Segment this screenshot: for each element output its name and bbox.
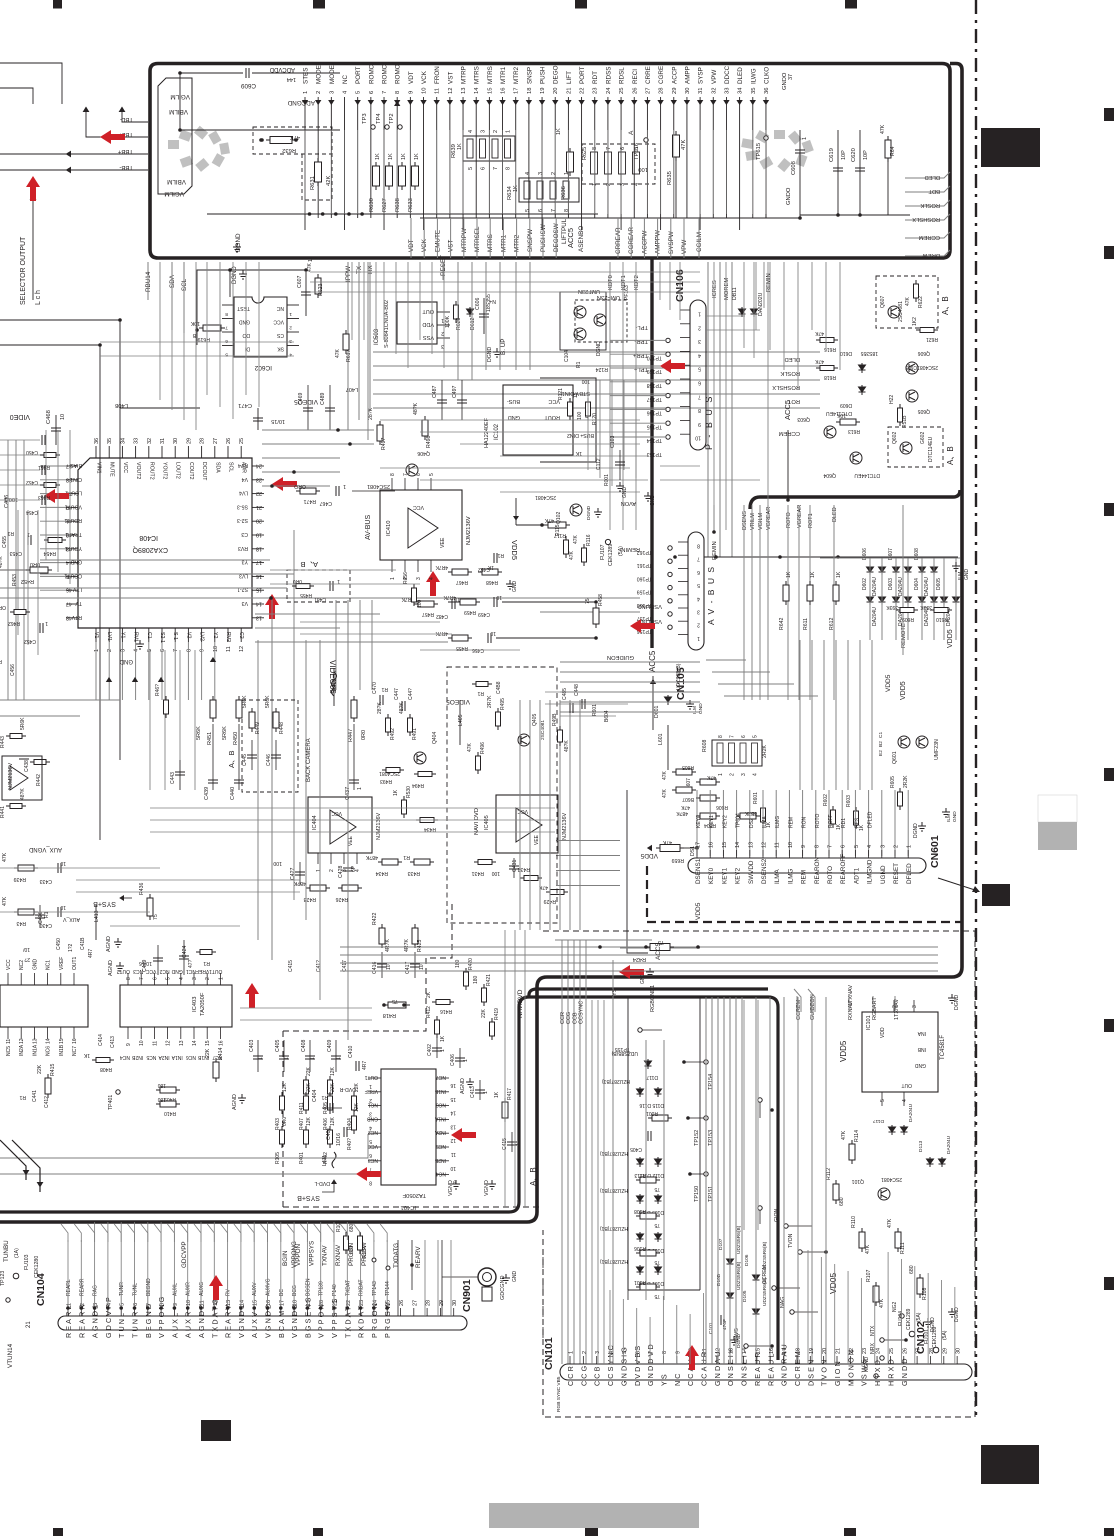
- svg-text:TPL+: TPL+: [633, 366, 648, 372]
- svg-text:3: 3: [741, 773, 747, 776]
- svg-text:OUT: OUT: [901, 1082, 912, 1088]
- svg-text:C448: C448: [574, 684, 580, 696]
- wires CN106 surroundings verticals: [659, 262, 661, 300]
- dashed region IC401: [283, 900, 540, 1207]
- registration mark bottom 4: [844, 1528, 856, 1536]
- svg-text:47K: 47K: [569, 550, 575, 560]
- svg-text:NC4: NC4: [436, 1171, 446, 1177]
- svg-text:VDD5: VDD5: [947, 629, 954, 648]
- capacitor C428 6P: [347, 860, 349, 880]
- svg-text:5: 5: [525, 209, 531, 212]
- registration mark top 3: [575, 0, 587, 9]
- svg-text:GUIDEON: GUIDEON: [607, 654, 634, 660]
- svg-text:S2-1: S2-1: [159, 632, 165, 643]
- svg-text:VIN1: VIN1: [96, 462, 102, 474]
- svg-text:CN601: CN601: [929, 835, 941, 868]
- svg-text:R618: R618: [824, 374, 836, 380]
- svg-text:2R7K: 2R7K: [487, 695, 493, 708]
- svg-text:48?K: 48?K: [293, 880, 306, 886]
- svg-text:YS: YS: [659, 1372, 668, 1386]
- wire bundle AVBUS verticals: [705, 997, 707, 1364]
- svg-text:8: 8: [718, 735, 724, 738]
- red arrow thick: [619, 965, 644, 979]
- svg-text:RESET: RESET: [893, 863, 900, 884]
- svg-text:47K: 47K: [544, 517, 554, 523]
- svg-text:BUS+ DIN2: BUS+ DIN2: [567, 432, 594, 438]
- svg-text:48?K: 48?K: [564, 740, 570, 752]
- svg-text:DGND: DGND: [954, 994, 960, 1010]
- svg-text:KDT1: KDT1: [621, 275, 627, 290]
- svg-text:ASENBO: ASENBO: [578, 226, 585, 252]
- wires array verticals: [869, 558, 871, 640]
- svg-text:NC7: NC7: [436, 1074, 446, 1080]
- capacitor C606 18355: [483, 298, 485, 334]
- svg-text:30: 30: [452, 1300, 458, 1306]
- svg-text:C427: C427: [290, 867, 296, 880]
- label box VGILM VBILM: [158, 78, 192, 194]
- svg-text:25: 25: [619, 88, 625, 94]
- svg-text:REARR: REARR: [79, 1278, 85, 1296]
- svg-text:4R7K: 4R7K: [435, 564, 448, 570]
- svg-text:R462: R462: [8, 620, 20, 626]
- svg-text:R497: R497: [381, 437, 387, 450]
- svg-text:5: 5: [468, 167, 474, 170]
- svg-text:21: 21: [26, 1321, 32, 1328]
- svg-text:C471: C471: [238, 402, 252, 408]
- svg-text:DTC144EU: DTC144EU: [854, 472, 880, 478]
- svg-text:TA2050F: TA2050F: [200, 992, 206, 1016]
- svg-text:CCB: CCB: [572, 1012, 578, 1024]
- resistor R001 C405b: [648, 1115, 672, 1121]
- svg-text:0R0: 0R0: [361, 730, 367, 740]
- red arrow audio: [245, 983, 259, 1008]
- svg-text:28: 28: [659, 88, 665, 94]
- svg-text:R426: R426: [335, 896, 348, 902]
- svg-text:IN1B: IN1B: [59, 1044, 65, 1056]
- svg-text:47K: 47K: [865, 1244, 871, 1254]
- svg-text:1: 1: [94, 649, 100, 652]
- svg-text:29: 29: [186, 438, 192, 444]
- svg-text:2: 2: [289, 325, 292, 331]
- svg-text:R103: R103: [336, 1220, 342, 1232]
- svg-text:GND: GND: [239, 319, 251, 325]
- svg-text:VCC: VCC: [122, 462, 128, 473]
- capacitor C101 470P: [718, 1315, 721, 1325]
- svg-text:TBL-: TBL-: [120, 116, 133, 122]
- svg-text:7: 7: [698, 393, 701, 399]
- svg-text:REMIN: REMIN: [766, 273, 772, 292]
- svg-text:25: 25: [889, 1348, 895, 1354]
- svg-text:47K: 47K: [880, 124, 886, 134]
- svg-text:DA204U: DA204U: [908, 1103, 914, 1122]
- svg-text:R453: R453: [12, 574, 18, 586]
- svg-text:3: 3: [698, 338, 701, 344]
- svg-text:TP165: TP165: [647, 423, 662, 429]
- svg-text:5R6K: 5R6K: [196, 726, 202, 740]
- svg-text:7: 7: [493, 167, 499, 170]
- svg-text:D612: D612: [470, 317, 476, 330]
- svg-text:NC7: NC7: [72, 1046, 78, 1056]
- svg-text:TPR-: TPR-: [634, 338, 648, 344]
- svg-text:8: 8: [395, 91, 401, 94]
- svg-text:BC: BC: [279, 1289, 285, 1296]
- svg-text:6: 6: [697, 569, 700, 575]
- svg-text:(5A): (5A): [916, 1312, 922, 1322]
- svg-text:NJM2136V: NJM2136V: [562, 812, 568, 840]
- capacitor C608: [799, 130, 801, 218]
- svg-text:20: 20: [256, 518, 262, 524]
- svg-text:RXNAV: RXNAV: [335, 1244, 342, 1266]
- svg-text:P140: P140: [332, 1284, 338, 1296]
- svg-text:R612: R612: [829, 617, 835, 630]
- svg-text:GND: GND: [622, 487, 628, 499]
- svg-text:D115 D116: D115 D116: [639, 1102, 664, 1108]
- svg-text:TEST: TEST: [237, 305, 250, 311]
- svg-text:VGILM: VGILM: [164, 190, 184, 197]
- svg-text:9: 9: [675, 1351, 681, 1354]
- svg-text:GDCGND: GDCGND: [500, 1276, 506, 1300]
- resistor cluster R401-R405 12K 22K: [280, 1092, 285, 1114]
- svg-text:AGND: AGND: [232, 1094, 238, 1110]
- svg-text:IC602: IC602: [254, 364, 272, 371]
- wires cn901 bracket: [442, 1276, 478, 1278]
- svg-text:47K: 47K: [680, 804, 690, 810]
- svg-text:C428: C428: [338, 865, 344, 878]
- svg-text:R605: R605: [890, 776, 896, 788]
- resistor R621 1K2: [916, 328, 938, 333]
- svg-text:R625: R625: [582, 147, 588, 160]
- svg-text:47K: 47K: [681, 140, 687, 150]
- svg-text:TP163: TP163: [647, 451, 662, 457]
- svg-text:3: 3: [441, 343, 444, 349]
- svg-text:VGREAR: VGREAR: [766, 507, 772, 530]
- svg-text:13: 13: [748, 842, 754, 848]
- svg-text:R633: R633: [408, 198, 414, 212]
- svg-text:18: 18: [527, 88, 533, 94]
- svg-text:8: 8: [662, 1351, 668, 1354]
- wires middle right extra: [705, 315, 745, 317]
- wire band above corner: [340, 946, 938, 948]
- svg-text:KEY2: KEY2: [735, 867, 742, 884]
- svg-text:R632: R632: [282, 147, 296, 153]
- svg-text:C452: C452: [26, 479, 38, 485]
- svg-text:TP615: TP615: [756, 143, 762, 160]
- wires upper mid horizontals: [262, 429, 374, 431]
- svg-text:R49B: R49B: [552, 713, 558, 726]
- diode DB11 DAN202U: [739, 307, 746, 317]
- svg-text:R449: R449: [255, 722, 261, 734]
- svg-text:N+: N+: [489, 298, 496, 304]
- svg-text:(1A): (1A): [14, 1248, 20, 1258]
- resistor R107 47K R108 680: [873, 1282, 879, 1306]
- label VGND: [452, 1180, 460, 1189]
- svg-text:(5A): (5A): [618, 546, 624, 556]
- svg-text:IN1A: IN1A: [434, 1115, 446, 1121]
- svg-text:R627: R627: [382, 198, 388, 212]
- svg-text:DSENS2: DSENS2: [761, 858, 768, 884]
- svg-text:R415: R415: [50, 1063, 56, 1076]
- video resistors R491-R494: [386, 714, 391, 736]
- capacitor C609: [180, 72, 243, 74]
- CN101 risers left pins: [609, 1290, 611, 1364]
- svg-text:10: 10: [60, 414, 66, 420]
- svg-text:ADT1: ADT1: [853, 867, 860, 884]
- svg-text:R001: R001: [646, 1110, 658, 1116]
- dashed box mid A B: [287, 570, 350, 602]
- svg-text:A、B: A、B: [941, 296, 950, 315]
- svg-text:IN1A: IN1A: [171, 1054, 183, 1060]
- connector CN101: [560, 1364, 972, 1380]
- transistor Q601 UMF23N: [898, 736, 910, 748]
- svg-text:19: 19: [809, 1348, 815, 1354]
- svg-text:KEY1: KEY1: [709, 815, 715, 828]
- svg-text:DVDVBS: DVDVBS: [633, 1344, 642, 1386]
- resistor R613 10K R822 22K: [836, 419, 860, 425]
- svg-text:OUT1: OUT1: [209, 968, 223, 974]
- svg-text:R434: R434: [375, 870, 388, 876]
- svg-text:R107: R107: [866, 1269, 872, 1282]
- svg-text:TC4581F: TC4581F: [940, 1035, 946, 1060]
- svg-text:AUXV: AUXV: [250, 1310, 259, 1338]
- svg-text:R601: R601: [592, 704, 598, 716]
- svg-text:C468: C468: [46, 410, 52, 424]
- svg-text:22: 22: [256, 490, 262, 496]
- svg-text:12K: 12K: [330, 1066, 336, 1076]
- svg-text:1: 1: [303, 91, 309, 94]
- test points TP163-TP170: [666, 435, 670, 439]
- resistor R439 47K C433: [14, 865, 38, 871]
- dashed box Q607: [876, 276, 938, 328]
- svg-text:Q406: Q406: [417, 450, 430, 456]
- resistor R447 ORO: [351, 696, 357, 722]
- svg-text:75: 75: [585, 598, 591, 604]
- svg-text:22K: 22K: [205, 1048, 211, 1058]
- svg-text:VDT: VDT: [408, 71, 415, 84]
- svg-text:47K: 47K: [662, 770, 668, 780]
- svg-text:REAROFF: REAROFF: [840, 854, 847, 884]
- svg-text:470P: 470P: [722, 1319, 728, 1330]
- IC403 TA2050F dip left: [0, 985, 88, 1027]
- svg-text:CCREM: CCREM: [793, 1349, 802, 1386]
- svg-text:VCC: VCC: [517, 808, 528, 814]
- svg-text:1: 1: [698, 311, 701, 317]
- test points TP156-TP162: [668, 546, 672, 550]
- svg-text:12K: 12K: [330, 1116, 336, 1126]
- svg-text:75: 75: [153, 914, 159, 920]
- svg-text:R439: R439: [13, 876, 26, 882]
- opamp IC409 lower: [299, 805, 301, 807]
- gray blob cluster right: [741, 138, 753, 149]
- svg-text:11: 11: [435, 88, 441, 94]
- transistor Q102 2SC4081 left: [570, 504, 582, 516]
- svg-text:CS: CS: [276, 332, 284, 338]
- svg-text:TUNR: TUNR: [119, 1282, 125, 1296]
- svg-text:9: 9: [453, 1179, 456, 1185]
- capacitors C487 C497 C488: [441, 380, 443, 420]
- svg-text:1K: 1K: [401, 153, 407, 160]
- black patch lower right: [981, 1445, 1039, 1484]
- svg-text:R408: R408: [100, 1066, 112, 1072]
- svg-text:NC3: NC3: [133, 968, 143, 974]
- caps C403 C405 C408 C409: [257, 1040, 259, 1072]
- svg-text:1K2: 1K2: [912, 317, 918, 326]
- svg-text:MUTE: MUTE: [109, 462, 115, 477]
- red arrow selector: [26, 176, 40, 201]
- svg-text:TBB+: TBB+: [117, 148, 133, 154]
- svg-text:IC410: IC410: [386, 521, 392, 536]
- svg-text:CCB: CCB: [593, 1365, 602, 1386]
- svg-text:GNDAU: GNDAU: [713, 1350, 722, 1386]
- svg-text:VGILM: VGILM: [170, 93, 190, 100]
- svg-text:AUX_VGND: AUX_VGND: [28, 846, 62, 852]
- svg-text:47K: 47K: [467, 742, 473, 752]
- svg-text:10/: 10/: [22, 946, 30, 952]
- svg-text:1?2: 1?2: [68, 943, 74, 952]
- svg-text:10: 10: [139, 1040, 145, 1046]
- chamfer exits CCREM GUIDEON: [794, 989, 801, 1012]
- svg-text:1: 1: [284, 1057, 290, 1060]
- svg-text:TXDAT: TXDAT: [345, 1280, 351, 1296]
- resistors R607 R606 47K: [696, 779, 720, 785]
- svg-text:GNDO: GNDO: [786, 187, 792, 205]
- svg-text:32: 32: [147, 438, 153, 444]
- svg-text:AMPP: AMPP: [684, 66, 691, 84]
- svg-text:48?K: 48?K: [365, 854, 378, 860]
- svg-text:10: 10: [60, 860, 66, 866]
- svg-text:47: 47: [66, 601, 72, 607]
- resistor network R639 1K: [463, 136, 515, 161]
- svg-text:TV: TV: [75, 600, 82, 606]
- svg-text:IC404: IC404: [312, 815, 318, 830]
- svg-text:NC5: NC5: [146, 1054, 156, 1060]
- svg-text:VGILM: VGILM: [758, 512, 764, 530]
- svg-text:RDSS: RDSS: [605, 67, 612, 85]
- capacitor C427 100: [299, 862, 301, 885]
- capacitors C439 C440 C437: [212, 724, 214, 790]
- svg-text:LIFTPUL: LIFTPUL: [561, 218, 568, 244]
- svg-text:1: 1: [718, 773, 724, 776]
- svg-text:C1: C1: [146, 632, 152, 639]
- svg-text:NAVI DVD: NAVI DVD: [474, 808, 480, 835]
- svg-text:3: 3: [912, 1005, 918, 1008]
- svg-text:ILMGND: ILMGND: [867, 859, 874, 884]
- svg-text:36: 36: [764, 88, 770, 94]
- svg-text:P - B U S: P - B U S: [704, 395, 714, 450]
- svg-text:OUT1: OUT1: [364, 1074, 378, 1080]
- svg-text:R630: R630: [369, 198, 375, 212]
- svg-text:DDCC: DDCC: [724, 65, 731, 84]
- svg-text:R447: R447: [348, 729, 354, 742]
- left column components 600-700: [10, 610, 30, 615]
- svg-text:VD05: VD05: [828, 1272, 838, 1294]
- svg-text:LV4: LV4: [239, 490, 248, 496]
- svg-text:NC5: NC5: [436, 1143, 446, 1149]
- transistor Q406 2SC4081: [406, 464, 418, 476]
- svg-text:100K: 100K: [445, 315, 451, 328]
- svg-text:FU103: FU103: [24, 1254, 30, 1270]
- svg-text:9: 9: [698, 421, 701, 427]
- wire bus left column: [7, 440, 9, 700]
- label NGND: [874, 1374, 878, 1378]
- svg-text:35: 35: [751, 88, 757, 94]
- svg-text:CCREM: CCREM: [919, 234, 940, 240]
- svg-text:8: 8: [698, 407, 701, 413]
- svg-text:14: 14: [46, 1038, 52, 1044]
- svg-text:6: 6: [152, 977, 158, 980]
- svg-text:COUT1: COUT1: [64, 572, 82, 578]
- svg-text:D605: D605: [936, 578, 942, 590]
- svg-text:10: 10: [213, 646, 219, 652]
- svg-text:100: 100: [273, 860, 282, 866]
- 47K resistor rows left of CN601: [672, 769, 696, 775]
- svg-text:3: 3: [880, 845, 886, 848]
- svg-text:5: 5: [166, 977, 172, 980]
- svg-text:GND: GND: [171, 968, 183, 974]
- svg-text:DA204U: DA204U: [946, 1135, 952, 1154]
- svg-text:C456: C456: [10, 664, 16, 676]
- svg-text:NC4: NC4: [120, 1054, 130, 1060]
- svg-text:R605: R605: [682, 764, 694, 770]
- svg-text:L408: L408: [115, 402, 128, 408]
- svg-text:VOUT2: VOUT2: [135, 462, 141, 479]
- capacitor C471 10/15: [257, 408, 259, 430]
- svg-text:CCREM: CCREM: [762, 1265, 768, 1284]
- transistor Q101 2SC4081: [878, 1188, 890, 1200]
- svg-text:5R6K: 5R6K: [242, 695, 248, 708]
- svg-text:6: 6: [369, 91, 375, 94]
- svg-text:VDD5: VDD5: [640, 852, 658, 859]
- svg-text:10: 10: [186, 1300, 192, 1306]
- svg-text:ROMC: ROMC: [368, 64, 375, 84]
- svg-text:HZU287(B1): HZU287(B1): [602, 1078, 630, 1084]
- svg-text:6: 6: [481, 167, 487, 170]
- wire bundle below CN105: [560, 661, 700, 663]
- svg-text:R116: R116: [586, 534, 592, 546]
- svg-text:144: 144: [287, 76, 296, 82]
- svg-text:1K: 1K: [375, 153, 381, 160]
- svg-text:30: 30: [685, 88, 691, 94]
- svg-text:393K: 393K: [886, 604, 898, 610]
- svg-text:R108: R108: [922, 1287, 928, 1300]
- dashed box R632: [253, 127, 332, 154]
- svg-text:29: 29: [942, 1348, 948, 1354]
- wires verticals bottom right: [705, 997, 707, 1364]
- svg-text:13: 13: [32, 1038, 38, 1044]
- diode D117 UDZS8B: [645, 1059, 652, 1069]
- svg-text:BEGND: BEGND: [146, 1278, 152, 1296]
- svg-text:CLKO: CLKO: [763, 67, 770, 84]
- svg-text:CGRE: CGRE: [658, 66, 665, 84]
- svg-text:R101: R101: [634, 1279, 646, 1285]
- svg-text:R421: R421: [486, 974, 492, 986]
- svg-text:C405: C405: [275, 1039, 281, 1052]
- IC403 TA2050F dip right: [120, 985, 232, 1027]
- registration mark right 4: [1104, 768, 1114, 781]
- svg-text:TP152: TP152: [694, 1130, 700, 1146]
- svg-text:R106: R106: [634, 1245, 646, 1251]
- dashed box CN601: [647, 866, 962, 922]
- svg-text:C455: C455: [2, 536, 8, 548]
- svg-text:11: 11: [6, 1039, 12, 1044]
- svg-text:REARV: REARV: [415, 1246, 422, 1268]
- test points TP150-TP154: [704, 1060, 708, 1064]
- wire TBL+ red: [86, 107, 148, 137]
- svg-text:C406: C406: [450, 1054, 456, 1066]
- svg-text:TP153: TP153: [708, 1130, 714, 1146]
- svg-text:26: 26: [399, 1300, 405, 1306]
- svg-text:UDZS5R6(B): UDZS5R6(B): [736, 1225, 742, 1254]
- wires IC408 left fan: [40, 465, 66, 467]
